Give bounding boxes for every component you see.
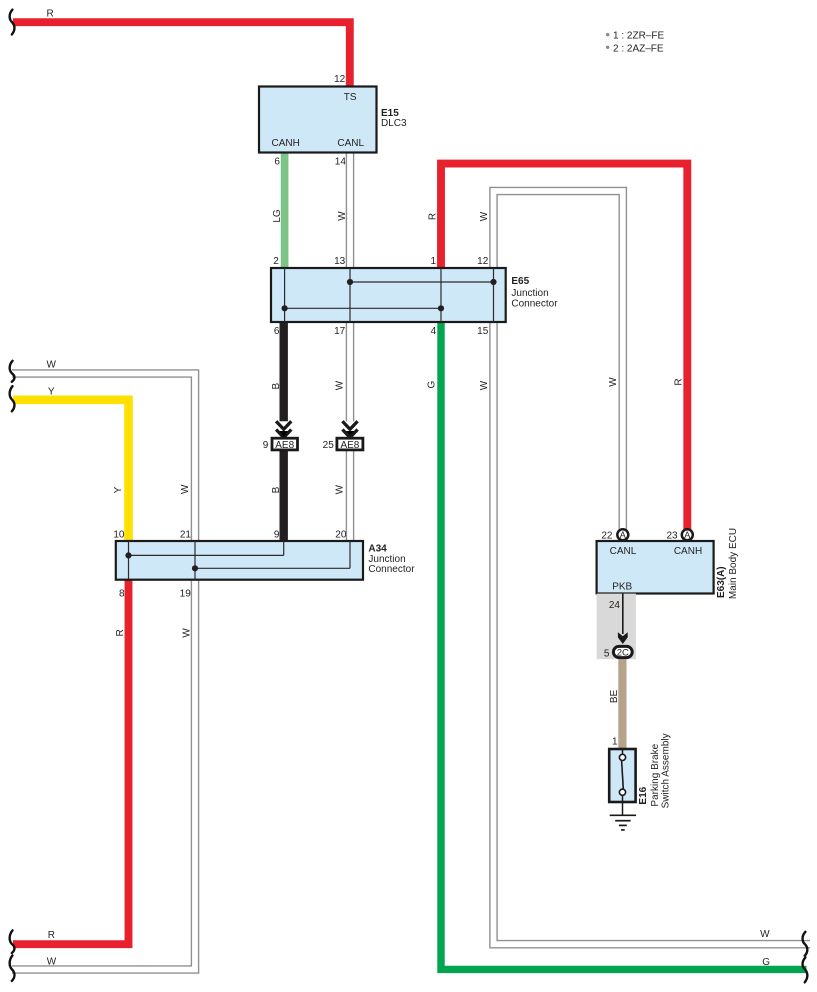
- break squiggle top-left R: [10, 10, 15, 35]
- E65 junction dot pin1: [438, 305, 444, 311]
- svg-text:Y: Y: [113, 486, 124, 493]
- wire Y from left edge to A34 pin10: [13, 400, 129, 543]
- E65 internal bus: pin2-6 line: [284, 268, 286, 322]
- svg-text:1 : 2ZR–FE: 1 : 2ZR–FE: [613, 31, 664, 42]
- svg-text:Connector: Connector: [511, 298, 558, 309]
- break squiggle right G: [803, 957, 808, 982]
- double chevron arrow into AE8 (W wire): [280, 431, 288, 438]
- wire R from A34 pin8 to left edge bottom: [13, 577, 129, 944]
- A34 internal bus: pin10-8 line: [128, 541, 130, 580]
- svg-text:R: R: [48, 930, 55, 941]
- svg-text:2 : 2AZ–FE: 2 : 2AZ–FE: [613, 43, 664, 54]
- svg-text:W: W: [479, 211, 490, 221]
- svg-text:W: W: [181, 628, 192, 638]
- svg-text:A34: A34: [368, 543, 387, 554]
- svg-text:12: 12: [477, 256, 489, 267]
- svg-text:DLC3: DLC3: [381, 118, 407, 129]
- svg-text:E63(A): E63(A): [716, 566, 727, 598]
- wire G from E65 pin4 to right edge bottom: [441, 320, 807, 969]
- svg-text:CANH: CANH: [674, 546, 702, 557]
- E65 junction dot pin12: [490, 279, 496, 285]
- wire R from E65 pin1 to E63 pin23: [441, 164, 687, 531]
- svg-text:A: A: [684, 530, 690, 540]
- svg-text:Parking Brake: Parking Brake: [650, 743, 661, 806]
- svg-text:W: W: [47, 956, 57, 967]
- break squiggle left Y: [10, 386, 15, 411]
- svg-text:W: W: [608, 377, 619, 387]
- svg-text:E16: E16: [638, 786, 649, 804]
- svg-text:W: W: [337, 211, 348, 221]
- A34 internal bus: pin9 stub: [283, 541, 285, 555]
- svg-text:13: 13: [334, 256, 346, 267]
- wire W from left edge to A34 pin21 (hollow white): [12, 374, 195, 544]
- svg-text:AE8: AE8: [340, 440, 359, 451]
- svg-text:W: W: [335, 484, 346, 494]
- E65 internal bus: CANL horizontal 13 to 12: [350, 281, 494, 283]
- svg-text:6: 6: [274, 326, 280, 337]
- svg-text:9: 9: [274, 530, 280, 541]
- A34 junction dot pin10: [125, 552, 131, 558]
- svg-text:5: 5: [604, 648, 610, 659]
- wire W from E65 pin12 to E63 pin22 (hollow white): [494, 191, 623, 531]
- svg-text:A: A: [620, 530, 626, 540]
- wire W CANL from E15 pin14 to E65 pin13 (hollow white): [346, 150, 355, 270]
- svg-text:4: 4: [431, 326, 437, 337]
- svg-text:CANL: CANL: [610, 546, 637, 557]
- connector E65 Junction Connector box: [271, 268, 506, 322]
- note markers 2ZR-FE / 2AZ-FE: [606, 31, 664, 55]
- svg-text:12: 12: [334, 74, 346, 85]
- svg-text:8: 8: [119, 589, 125, 600]
- wire R from left edge to E15 pin12: [13, 22, 350, 88]
- svg-text:1: 1: [612, 737, 618, 748]
- ground symbol: [610, 795, 636, 830]
- wire BE from splice 2C to E16 pin1: [618, 655, 626, 751]
- connector AE8 (pin 9): [272, 438, 298, 450]
- svg-text:G: G: [762, 957, 770, 968]
- svg-text:PKB: PKB: [612, 582, 632, 593]
- svg-text:R: R: [427, 213, 438, 220]
- svg-text:2: 2: [273, 256, 279, 267]
- switch E16 Parking Brake Switch Assembly: [609, 749, 635, 802]
- svg-text:BE: BE: [609, 690, 620, 704]
- connector A34 Junction Connector box: [116, 541, 363, 580]
- A34 junction dot pin21: [192, 565, 198, 571]
- svg-text:Switch Assembly: Switch Assembly: [661, 733, 672, 808]
- break squiggle bottom-left W: [10, 955, 15, 981]
- E65 internal bus: pin12-15 line: [493, 268, 495, 322]
- wire PKB pin24 to splice: [622, 594, 624, 634]
- A34 internal bus: pin21-19 line: [194, 541, 196, 580]
- wire W from E65 pin17 to A34 pin20 (hollow white): [346, 318, 355, 543]
- wire W from A34 pin19 to left edge bottom (hollow white): [12, 577, 195, 970]
- svg-text:R: R: [674, 378, 685, 385]
- shield connector A pin22: [617, 529, 628, 540]
- break squiggle bottom-left R: [10, 930, 15, 953]
- svg-text:W: W: [47, 360, 57, 371]
- svg-text:B: B: [271, 383, 282, 390]
- break squiggle right W: [803, 932, 808, 956]
- connector E15 DLC3 box: [259, 87, 377, 153]
- wire LG from E15 pin6 (CANH) to E65 pin2: [281, 151, 289, 270]
- svg-text:23: 23: [666, 531, 678, 542]
- svg-text:Y: Y: [48, 386, 55, 397]
- E65 junction dot pin13: [347, 279, 353, 285]
- E65 internal bus: CANH horizontal 2 to 1: [285, 307, 441, 309]
- svg-text:22: 22: [601, 531, 613, 542]
- svg-text:Main Body ECU: Main Body ECU: [728, 528, 739, 599]
- svg-text:W: W: [479, 380, 490, 390]
- svg-text:1: 1: [430, 256, 436, 267]
- svg-text:R: R: [115, 629, 126, 636]
- E65 internal bus: pin13-17 line: [349, 268, 351, 322]
- A34 internal bus: horizontal 10 to 9: [129, 554, 284, 556]
- svg-text:20: 20: [335, 530, 347, 541]
- svg-text:19: 19: [180, 589, 192, 600]
- svg-text:W: W: [180, 484, 191, 494]
- svg-text:R: R: [47, 9, 54, 20]
- connector AE8 (pin 25): [337, 438, 363, 450]
- E65 internal bus: pin1-4 line: [440, 268, 442, 322]
- shield connector A pin23: [682, 529, 693, 540]
- svg-text:G: G: [427, 380, 438, 388]
- svg-text:Connector: Connector: [368, 564, 415, 575]
- svg-text:2C: 2C: [617, 648, 629, 659]
- svg-text:TS: TS: [344, 92, 357, 103]
- svg-text:9: 9: [263, 440, 269, 451]
- svg-text:21: 21: [180, 530, 192, 541]
- wire B from E65 pin6 to AE8: [280, 320, 288, 421]
- svg-text:14: 14: [335, 157, 347, 168]
- gray connector block below PKB pin24: [597, 594, 636, 660]
- svg-text:24: 24: [609, 600, 621, 611]
- svg-text:10: 10: [113, 530, 125, 541]
- splice oval 2C: [613, 646, 632, 657]
- svg-text:6: 6: [274, 157, 280, 168]
- E65 junction dot pin2: [282, 305, 288, 311]
- svg-text:AE8: AE8: [275, 440, 294, 451]
- svg-text:LG: LG: [272, 209, 283, 223]
- svg-text:W: W: [335, 380, 346, 390]
- wire W from E65 pin15 to right edge (hollow white): [494, 318, 811, 944]
- A34 internal bus: horizontal 21 to 20: [195, 567, 350, 569]
- connector E63(A) Main Body ECU box: [597, 541, 714, 594]
- wire B from AE8 to A34 pin9: [280, 451, 288, 543]
- break squiggle left W: [10, 361, 15, 382]
- svg-text:W: W: [760, 929, 770, 940]
- svg-text:15: 15: [477, 326, 489, 337]
- double chevron arrow into AE8 (B wire): [276, 421, 291, 437]
- svg-text:25: 25: [323, 440, 335, 451]
- arrowhead on pin24 wire: [618, 632, 628, 644]
- svg-text:CANH: CANH: [272, 138, 300, 149]
- svg-text:17: 17: [334, 326, 346, 337]
- svg-text:B: B: [271, 486, 282, 493]
- A34 internal bus: pin20 stub: [349, 541, 351, 568]
- svg-text:CANL: CANL: [337, 138, 364, 149]
- svg-text:E65: E65: [511, 276, 529, 287]
